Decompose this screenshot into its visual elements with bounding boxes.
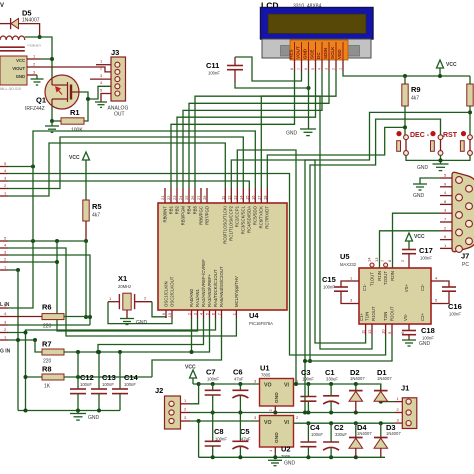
wire U2 vi rail (294, 422, 395, 424)
resistor R1 (52, 108, 84, 134)
svg-text:C18: C18 (421, 326, 435, 335)
svg-text:C13: C13 (102, 373, 116, 382)
svg-text:R1OUT: R1OUT (371, 306, 376, 321)
svg-text:RA1/AN1: RA1/AN1 (195, 288, 200, 307)
svg-text:C2: C2 (334, 423, 344, 432)
wire viout to J3 pin2 (40, 67, 111, 72)
svg-text:C1-: C1- (362, 283, 367, 290)
lcd pin numbers (290, 68, 343, 70)
svg-text:10: 10 (381, 329, 386, 334)
svg-text:1N4007: 1N4007 (357, 431, 372, 436)
svg-text:C8: C8 (214, 427, 224, 436)
connector group3 pin3 (0, 324, 8, 326)
wire bottom rail (199, 456, 385, 458)
svg-text:7805: 7805 (261, 373, 271, 378)
svg-text:J3: J3 (111, 48, 119, 57)
wire x18 vertical (17, 270, 19, 411)
wire RST net (310, 119, 441, 361)
pin 3 (27, 74, 37, 76)
resistor R9 (402, 76, 421, 127)
svg-text:VCC: VCC (414, 234, 425, 240)
wire R5 lower (85, 241, 87, 317)
connector group2 pin5 (0, 240, 8, 242)
svg-text:PC: PC (462, 262, 469, 268)
wire (51, 121, 53, 126)
svg-text:VI: VI (284, 383, 289, 389)
connector group3 pin2 (0, 332, 8, 334)
U5 pin labels (359, 271, 425, 321)
wire row1-5 to RC5 (8, 166, 33, 168)
svg-text:MAX232: MAX232 (340, 262, 357, 267)
svg-text:28: 28 (202, 195, 207, 200)
connector group2 pin4 (0, 247, 8, 249)
connector J2 (155, 386, 190, 429)
U4 top pin labels (163, 205, 270, 243)
svg-text:RC2/CCP1: RC2/CCP1 (235, 205, 240, 227)
power flag VCC (top right) (437, 60, 457, 76)
node junction (403, 125, 407, 129)
svg-text:4k7: 4k7 (411, 96, 419, 102)
svg-text:23: 23 (172, 195, 177, 200)
svg-text:VO: VO (264, 383, 272, 389)
svg-text:2: 2 (332, 68, 336, 70)
capacitor C5 (232, 413, 251, 458)
svg-text:22: 22 (166, 195, 171, 200)
svg-text:5: 5 (311, 68, 315, 70)
svg-text:OUT: OUT (114, 112, 125, 118)
svg-text:C2-: C2- (420, 283, 425, 290)
svg-text:U5: U5 (340, 252, 350, 261)
svg-text:R6: R6 (42, 303, 52, 312)
svg-text:330uF: 330uF (326, 376, 338, 381)
svg-text:100nF: 100nF (302, 376, 314, 381)
diode D2 (349, 368, 365, 413)
svg-text:13: 13 (232, 195, 237, 200)
svg-text:J1: J1 (401, 384, 409, 393)
capacitor C3 (300, 368, 316, 413)
svg-text:VI: VI (284, 420, 289, 426)
wire lcd gnd pin down (308, 71, 310, 129)
wire J2 pin1 to vcc rail (190, 384, 199, 404)
wire row1-2 to RC3 (8, 137, 243, 189)
svg-text:1N4007: 1N4007 (377, 376, 392, 381)
resistor R7 (35, 340, 64, 365)
wire vcc top rail (193, 383, 260, 385)
wire source (51, 106, 53, 121)
diode D1 (374, 368, 392, 402)
wire row2-1 (8, 269, 18, 271)
op chip U4 PIC16F876A (158, 203, 287, 326)
U4 bottom pin stubs (166, 310, 236, 318)
svg-text:GND: GND (274, 392, 280, 403)
svg-text:GND: GND (419, 341, 431, 347)
svg-text:RB6/PGC: RB6/PGC (199, 206, 204, 225)
svg-text:14: 14 (367, 257, 372, 262)
svg-text:RC7/RX/DT: RC7/RX/DT (265, 206, 270, 229)
lcd pin block (289, 40, 349, 60)
ground (95, 102, 107, 107)
wire RA0 net (191, 318, 193, 352)
capacitor C14 (112, 352, 139, 411)
connector group3 pin4 (0, 316, 8, 318)
svg-text:RC4/SDI/SDA: RC4/SDI/SDA (247, 206, 252, 233)
U4 top pin numbers (160, 195, 267, 200)
wire (84, 99, 88, 121)
svg-text:RC6/TX/CK: RC6/TX/CK (259, 206, 264, 229)
svg-text:RST: RST (443, 132, 458, 139)
svg-text:GND: GND (417, 165, 429, 171)
wire R2OUT to gnd vert (305, 335, 392, 361)
svg-text:18: 18 (262, 195, 267, 200)
svg-text:RC5/SDO: RC5/SDO (253, 205, 258, 225)
wire J7 pin3 to U5 R2IN (393, 213, 441, 268)
connector group2 pin1 (0, 269, 8, 271)
diode D5 (11, 9, 40, 30)
svg-text:DC: DC (316, 52, 321, 59)
svg-text:RA2/AN2/VREF-/CVREF: RA2/AN2/VREF-/CVREF (201, 259, 206, 307)
svg-text:1K: 1K (44, 384, 51, 390)
wire row3-3 (8, 324, 90, 326)
ground (70, 411, 100, 422)
svg-text:C12: C12 (80, 373, 94, 382)
svg-text:27: 27 (196, 195, 201, 200)
svg-text:100nF: 100nF (124, 382, 136, 387)
op chip U5 MAX232 (340, 252, 431, 324)
power flag VCC (left) (69, 152, 90, 161)
connector group1 pin3 (0, 180, 8, 182)
node junction (86, 97, 90, 101)
svg-text:100nF: 100nF (102, 382, 114, 387)
crystal X1 (108, 274, 152, 310)
wire RA4 net (26, 318, 216, 333)
ground (31, 79, 44, 85)
wire (40, 58, 52, 60)
connector J7 DB9 (452, 172, 474, 268)
svg-text:RA3/AN3/VREF+: RA3/AN3/VREF+ (207, 273, 212, 307)
svg-text:R5: R5 (92, 202, 102, 211)
U4 top pin stubs (165, 188, 267, 203)
resistor R10 (467, 76, 473, 137)
wire left end bottom rail drop (198, 421, 200, 457)
svg-text:VS-: VS- (403, 313, 408, 321)
capacitor C6 (232, 368, 248, 413)
svg-text:SDIN: SDIN (323, 47, 328, 59)
svg-text:RES: RES (289, 50, 294, 59)
pin 2 (27, 66, 40, 68)
svg-text:100nF: 100nF (208, 71, 220, 76)
ground (120, 319, 148, 327)
svg-text:Q1: Q1 (36, 96, 46, 105)
wire lcd sce staircase (177, 71, 316, 188)
svg-text:MCLR/Vpp/THV: MCLR/Vpp/THV (234, 276, 239, 307)
svg-text:R2IN: R2IN (390, 271, 395, 281)
svg-text:1N4007: 1N4007 (22, 18, 40, 24)
svg-text:VCC: VCC (16, 58, 25, 63)
svg-text:G IN: G IN (0, 349, 11, 355)
svg-text:GND: GND (274, 432, 280, 443)
wire dec to button (404, 127, 406, 137)
svg-text:RA5/AN4/SS/C2OUT: RA5/AN4/SS/C2OUT (219, 266, 224, 307)
svg-text:100nF: 100nF (420, 256, 432, 261)
svg-text:VOUT: VOUT (296, 46, 301, 59)
svg-text:RB4: RB4 (187, 205, 192, 214)
node junction (84, 239, 88, 243)
node junction (38, 35, 42, 39)
svg-text:T1IN: T1IN (365, 312, 370, 321)
svg-text:100nF: 100nF (449, 312, 461, 317)
capacitor C12 (70, 352, 94, 411)
svg-text:47uF: 47uF (234, 377, 244, 382)
capacitor C15 (322, 275, 348, 304)
capacitor C18 (400, 324, 435, 341)
svg-text:DEC -: DEC - (410, 132, 430, 139)
power flag VCC (bottom) (185, 365, 197, 385)
capacitor C8 (205, 413, 228, 458)
wire bottom-left gnd rail (18, 410, 120, 412)
node junction (307, 86, 311, 90)
diode D4 (349, 423, 372, 458)
svg-text:OSC2/CLKOUT: OSC2/CLKOUT (170, 276, 175, 307)
svg-text:R2OUT: R2OUT (390, 306, 395, 321)
svg-text:21: 21 (160, 195, 165, 200)
svg-text:RB1: RB1 (169, 205, 174, 214)
power flag VCC (mid) (406, 233, 425, 250)
svg-text:U4: U4 (249, 311, 259, 320)
svg-text:10: 10 (167, 312, 172, 317)
svg-text:D5: D5 (22, 9, 32, 18)
svg-text:VDD: VDD (337, 49, 342, 59)
svg-text:VIOUT: VIOUT (12, 66, 25, 71)
svg-text:RC3/SCK/SCL: RC3/SCK/SCL (241, 205, 246, 234)
svg-text:VCC: VCC (69, 155, 80, 161)
svg-text:R7: R7 (42, 340, 52, 349)
connector group1 pin4 (0, 173, 8, 175)
ground (417, 164, 449, 171)
wire C11 bottom to gnd net (235, 82, 309, 88)
J7 pin stubs (440, 173, 452, 249)
svg-text:100nF: 100nF (311, 432, 323, 437)
svg-text:RC1/T1OSI/CCP2: RC1/T1OSI/CCP2 (229, 205, 234, 240)
svg-text:IRFZ44Z: IRFZ44Z (25, 106, 45, 112)
capacitor C1 (323, 368, 339, 413)
svg-text:GND: GND (16, 74, 25, 79)
svg-text:GND: GND (286, 131, 298, 137)
current sensor module (0, 56, 27, 91)
wire J3 pin5 gnd (101, 94, 111, 103)
wire X1 pin1 to OSC2 (108, 302, 172, 324)
connector group2 pin2 (0, 261, 8, 263)
ground (268, 460, 296, 466)
wire gate (79, 86, 111, 99)
wire (25, 37, 52, 78)
wire RA2 net (98, 318, 204, 352)
wire x57 to RA0 (57, 241, 198, 331)
svg-text:100nF: 100nF (207, 377, 219, 382)
svg-text:MLL-50-S/X: MLL-50-S/X (0, 86, 22, 91)
wire RA5 net (152, 318, 222, 377)
svg-text:24: 24 (178, 195, 183, 200)
U5 side pin stubs (345, 276, 445, 304)
svg-text:J2: J2 (155, 386, 163, 395)
ground (402, 340, 431, 347)
svg-text:25: 25 (184, 195, 189, 200)
connector group3 pin1 (0, 339, 8, 341)
svg-text:1: 1 (339, 68, 343, 70)
svg-text:GND: GND (413, 193, 425, 199)
U4 bottom pin labels (164, 259, 240, 307)
wire X1 pin2 to OSC1 (152, 302, 166, 318)
wire row2-5 (8, 240, 86, 242)
svg-text:GND: GND (136, 320, 148, 326)
connector J1 (394, 384, 416, 429)
svg-text:J7: J7 (461, 252, 469, 261)
resistor R6 (42, 303, 64, 330)
svg-text:GND: GND (88, 415, 100, 421)
wire (0, 23, 11, 25)
lcd pin stubs (295, 60, 344, 71)
svg-text:RB0/INT: RB0/INT (163, 206, 168, 223)
connector group2 pin3 (0, 254, 8, 256)
svg-text:C15: C15 (322, 275, 336, 284)
capacitor C7 (205, 368, 221, 413)
svg-text:C1+: C1+ (359, 313, 364, 321)
svg-text:C16: C16 (448, 302, 462, 311)
svg-text:13: 13 (374, 257, 379, 262)
svg-text:3: 3 (325, 68, 329, 70)
wire U2 gnd (274, 453, 276, 457)
svg-text:17: 17 (256, 195, 261, 200)
svg-text:26: 26 (190, 195, 195, 200)
svg-text:7: 7 (297, 68, 301, 70)
U5 top pin extras (367, 257, 393, 267)
wire C11 top to LCD VOUT (235, 57, 302, 81)
connector group1 pin1 (0, 195, 8, 197)
svg-text:SCE: SCE (310, 50, 315, 59)
svg-text:U1: U1 (260, 364, 270, 373)
capacitor C13 (91, 352, 116, 411)
diode D3 (374, 423, 401, 458)
wire mid rail J2 pin2 to J1 pin2 (190, 412, 394, 414)
svg-text:VS+: VS+ (404, 284, 409, 293)
svg-text:1N4007: 1N4007 (350, 376, 365, 381)
wire row3-5 (8, 167, 33, 309)
connector group1 pin5 (0, 166, 8, 168)
svg-text:RB5: RB5 (193, 205, 198, 214)
svg-text:C7: C7 (206, 368, 216, 377)
svg-text:RB2: RB2 (175, 205, 180, 214)
inductor L coil (0, 36, 42, 51)
svg-text:R8: R8 (42, 365, 52, 374)
ground (413, 184, 427, 199)
svg-text:R1IN: R1IN (377, 271, 382, 281)
wire row2-4 to MCLR (8, 248, 236, 336)
svg-text:T1OUT: T1OUT (370, 272, 375, 286)
svg-text:4k7: 4k7 (92, 213, 100, 219)
ground (45, 126, 59, 132)
svg-text:C5: C5 (240, 427, 250, 436)
button RST (430, 131, 457, 155)
svg-text:T2OUT: T2OUT (383, 271, 388, 285)
svg-text:C14: C14 (124, 373, 139, 382)
wire lcd sclk staircase (195, 71, 336, 188)
pin 1 (27, 58, 40, 60)
svg-text:<value>: <value> (27, 43, 42, 48)
wire row1-1 to RC0 (8, 143, 225, 196)
wire row1-3 to RC4 (8, 181, 249, 188)
resistor R5 (83, 160, 102, 241)
svg-text:1N4007: 1N4007 (386, 431, 401, 436)
capacitor C17 (400, 246, 433, 268)
svg-text:16: 16 (250, 195, 255, 200)
svg-text:20MHz: 20MHz (118, 284, 131, 289)
wire U1 out rail (294, 384, 395, 402)
wire RC7 to DEC net (267, 127, 404, 188)
wire J7 pin5 gnd (420, 178, 440, 184)
svg-text:RB7/PGD: RB7/PGD (205, 206, 210, 225)
svg-text:12: 12 (226, 195, 231, 200)
wire row2-3 (8, 255, 90, 325)
svg-text:VCC: VCC (185, 365, 196, 371)
wire row3-1 (8, 339, 35, 341)
transistor Q1 (25, 75, 79, 112)
svg-text:GND: GND (284, 461, 296, 467)
svg-text:100nF: 100nF (323, 285, 335, 290)
connector group3 pin5 (0, 307, 8, 309)
wire R6 right (64, 316, 90, 318)
wire J2 pin3 to U2 (190, 420, 260, 422)
resistor R8 (24, 365, 65, 390)
wire row1-4 to U5 T2IN (8, 174, 386, 356)
svg-text:C4: C4 (310, 423, 320, 432)
capacitor C16 (442, 281, 462, 317)
pin stubs J3 (90, 59, 111, 93)
lcd body (261, 8, 374, 59)
svg-text:100nF: 100nF (80, 382, 92, 387)
svg-text:C17: C17 (419, 246, 433, 255)
svg-text:8: 8 (290, 68, 294, 70)
svg-text:RA4/T0CKI/C1OUT: RA4/T0CKI/C1OUT (213, 269, 218, 307)
wire lcd res staircase (171, 71, 295, 188)
svg-text:100nF: 100nF (422, 336, 434, 341)
svg-text:OSC1/CLKIN: OSC1/CLKIN (164, 281, 169, 307)
wire (36, 75, 38, 79)
wire RC1 to T1IN (231, 160, 365, 343)
svg-text:C2+: C2+ (420, 313, 425, 321)
regulator U2 7905 (254, 415, 299, 459)
svg-text:C11: C11 (206, 61, 219, 70)
wire lcd vdd to vcc rail (343, 71, 470, 76)
svg-text:C6: C6 (233, 368, 243, 377)
wire X1 case gnd (126, 310, 128, 319)
U4 bottom pin numbers (161, 312, 236, 317)
wire lcd dc staircase (183, 71, 322, 188)
wire R8 right (64, 376, 152, 378)
svg-text:RA0/AN0: RA0/AN0 (189, 288, 194, 307)
svg-text:T2IN: T2IN (383, 312, 388, 321)
wire lcd sdin staircase (189, 71, 329, 188)
wire row3-4 (8, 316, 42, 318)
wire (19, 24, 40, 37)
svg-text:15: 15 (244, 195, 249, 200)
button DEC (396, 131, 429, 155)
ground (300, 129, 316, 136)
wire button3 net (305, 112, 470, 412)
svg-text:R1: R1 (70, 108, 80, 117)
svg-text:X1: X1 (118, 274, 127, 283)
capacitor C4 (300, 423, 323, 457)
U5 bottom pin stubs (361, 324, 393, 335)
wire J7 pin2 to U5 R1IN (380, 231, 441, 268)
